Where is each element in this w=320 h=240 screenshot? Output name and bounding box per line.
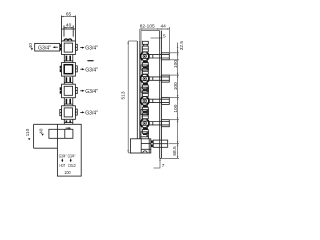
bottom manifold block (side) (131, 139, 151, 153)
wall lines (137, 41, 140, 139)
svg-text:44: 44 (161, 24, 167, 30)
side module M4 (140, 111, 149, 133)
port 3 (side) (141, 110, 149, 115)
svg-text:82-105: 82-105 (140, 24, 155, 30)
outlet arrow + G3/4 label row 4 (80, 111, 98, 117)
union connector 4 (front) (64, 119, 73, 124)
svg-text:7: 7 (162, 163, 165, 169)
dimension 5 (plate thickness) (151, 34, 167, 40)
inlet manifold cells (49, 127, 73, 138)
svg-text:100: 100 (173, 60, 179, 68)
svg-text:40: 40 (66, 23, 72, 29)
svg-text:G3/4": G3/4" (85, 89, 98, 95)
stem + handle M1 (149, 53, 169, 60)
svg-text:110: 110 (25, 128, 31, 136)
svg-text:G3/4": G3/4" (85, 67, 98, 73)
dimension 82-105 and 44 (140, 24, 170, 53)
stem + handle M3 (149, 97, 169, 104)
adjustment zone outline (141, 31, 160, 139)
top port (side) (142, 41, 148, 44)
svg-text:100: 100 (173, 82, 179, 90)
outlet arrow + G3/4 label row 1 (80, 46, 98, 52)
svg-text:G3/4": G3/4" (38, 46, 51, 52)
stem + handle M4 (149, 120, 169, 127)
valve module M1 (front) (60, 41, 78, 55)
svg-text:G3/4": G3/4" (59, 153, 67, 158)
union connector 2 (front) (64, 76, 73, 84)
valve module M2 (front) (60, 63, 78, 77)
dimension 40 top (64, 23, 73, 29)
top outlet section of manifold column (62, 16, 76, 42)
port 2 (side) (141, 87, 149, 92)
valve module M4 (front) (60, 106, 78, 120)
side module M1 (140, 44, 149, 66)
svg-text:HOT: HOT (60, 163, 66, 168)
svg-text:100: 100 (64, 170, 71, 175)
svg-text:100: 100 (173, 104, 179, 112)
svg-text:32.5: 32.5 (179, 41, 185, 51)
port 1 (side) (141, 65, 149, 70)
svg-text:G3/4": G3/4" (68, 153, 76, 158)
right dimension chain (162, 43, 179, 159)
side module M2 (140, 67, 149, 89)
union connector 1 (front) (64, 55, 73, 63)
dimension 7 (154, 158, 165, 168)
port 4 (side) (141, 132, 149, 137)
side module M3 (140, 89, 149, 111)
svg-text:513: 513 (121, 91, 127, 99)
svg-text:G3/4": G3/4" (85, 46, 98, 52)
svg-text:68.5: 68.5 (172, 146, 178, 156)
svg-text:COLD: COLD (68, 163, 76, 168)
svg-text:65: 65 (66, 11, 72, 17)
recess outline left (34, 124, 58, 148)
face plate (160, 31, 162, 159)
bottom port (side) (151, 140, 168, 147)
top union nuts (64, 39, 72, 41)
bottom housing box (front) (57, 124, 81, 176)
stem + handle M2 (149, 75, 169, 82)
inlet up arrows (61, 158, 71, 162)
union connector 3 (front) (64, 98, 73, 106)
valve module M3 (front) (60, 84, 78, 98)
svg-text:40: 40 (28, 43, 34, 49)
outlet arrow + G3/4 label row 2 (80, 67, 98, 73)
svg-text:G3/4": G3/4" (85, 111, 98, 117)
dimension 513 (121, 41, 137, 153)
tail to bottom block (141, 137, 149, 139)
left outlet pipe G3/4 (35, 43, 60, 51)
outlet arrow + G3/4 label row 3 (80, 89, 98, 95)
dash mark between row1 and row2 (87, 60, 93, 61)
dimension 65 (62, 11, 76, 17)
svg-text:40: 40 (39, 128, 45, 134)
svg-text:5: 5 (163, 34, 166, 40)
